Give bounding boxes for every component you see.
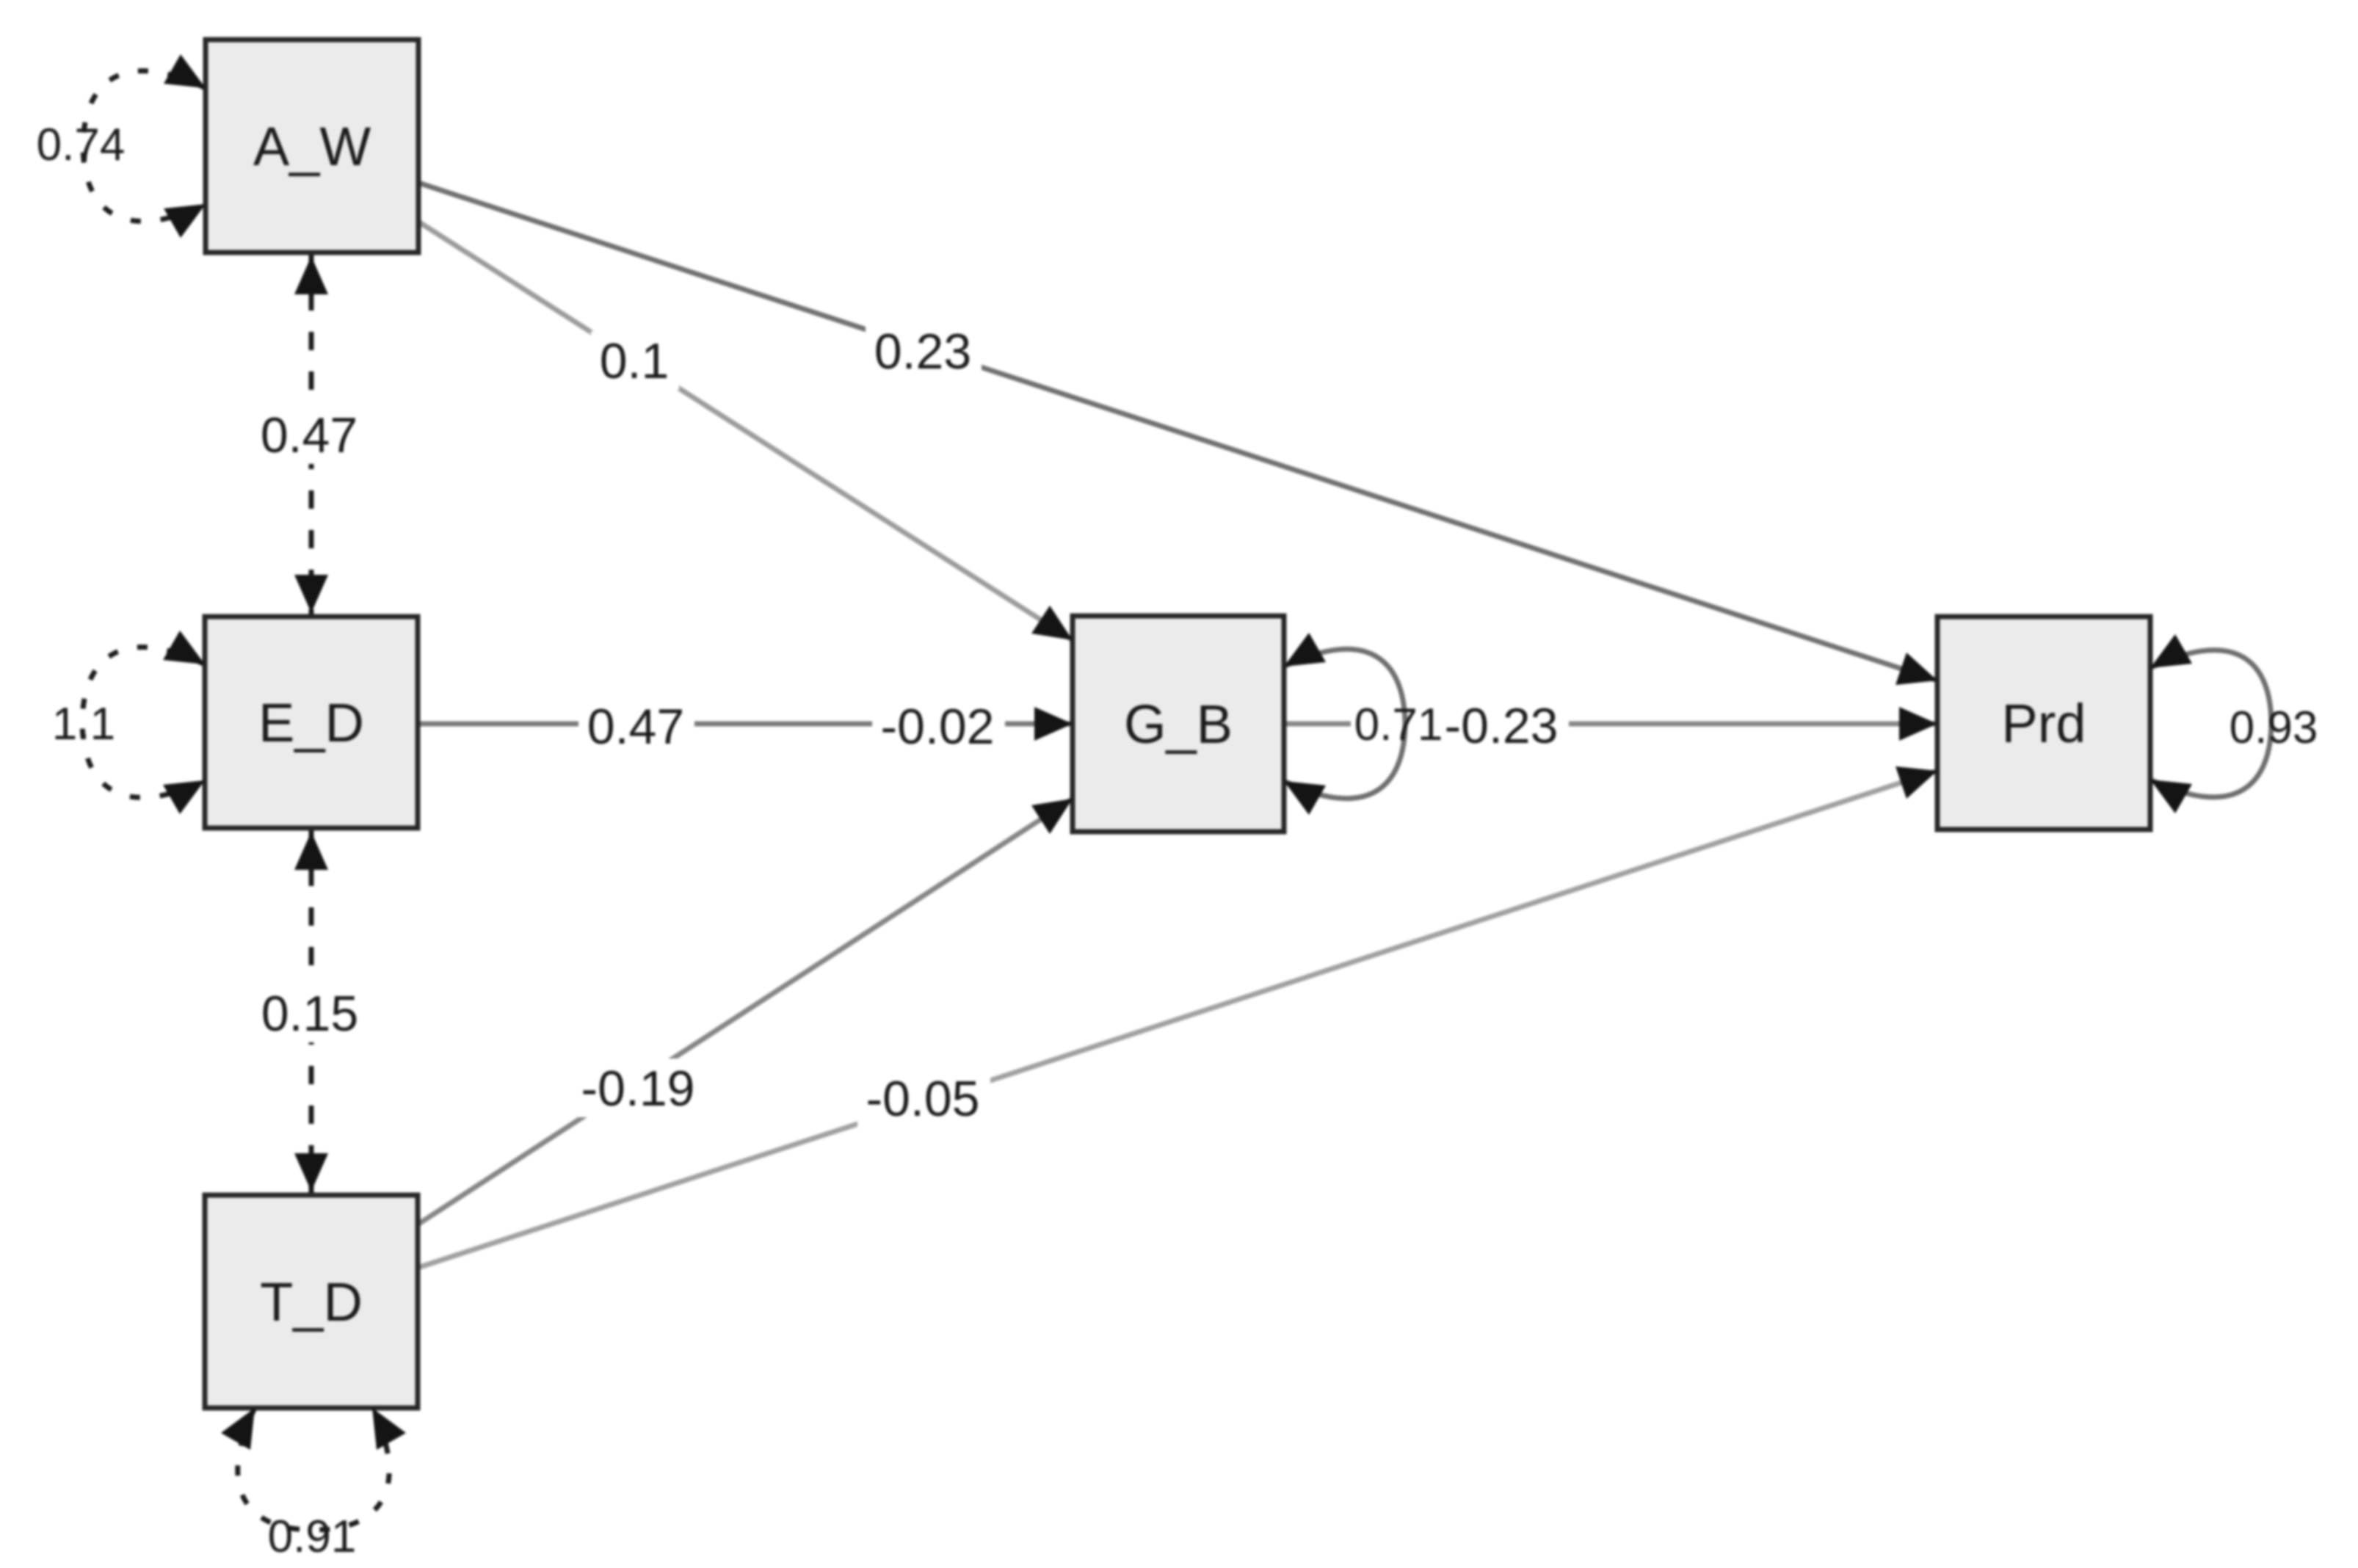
arrowheads variance Prd — [2150, 634, 2192, 668]
arrowhead T_D to Prd — [1896, 766, 1937, 799]
node A_W — [206, 40, 418, 253]
svg-text:-0.02: -0.02 — [881, 699, 995, 755]
node E_D — [205, 617, 418, 828]
svg-text:0.93: 0.93 — [2230, 703, 2318, 753]
svg-text:E_D: E_D — [258, 692, 364, 753]
arrowheads variance E_D — [163, 631, 205, 664]
svg-text:0.91: 0.91 — [268, 1511, 357, 1562]
path A_W to Prd (0.23) — [418, 183, 1937, 680]
label 0.15 on E_D-T_D covariance background — [253, 984, 369, 1042]
svg-text:0.47: 0.47 — [587, 699, 684, 755]
label -0.02 on E_D-Prd background — [872, 697, 1005, 755]
svg-text:-0.05: -0.05 — [866, 1071, 980, 1127]
label 0.47 on E_D-G_B background — [578, 697, 694, 755]
label -0.19 on T_D-G_B background — [573, 1059, 705, 1117]
label -0.23 on G_B-Prd background — [1436, 696, 1569, 755]
svg-text:A_W: A_W — [253, 116, 371, 177]
svg-text:0.1: 0.1 — [600, 333, 670, 389]
variance loop G_B (0.71) — [1284, 649, 1405, 798]
covariance A_W with E_D (0.47) dashed double arrow — [309, 253, 314, 617]
arrowhead G_B to Prd — [1899, 707, 1937, 741]
arrowhead A_W to Prd — [1896, 653, 1937, 685]
variance loop Prd (0.93) — [2150, 650, 2271, 797]
arrowhead T_D to G_B — [1031, 799, 1073, 834]
node G_B — [1073, 616, 1284, 832]
variance loop A_W (0.74) — [83, 71, 206, 222]
svg-text:0.23: 0.23 — [874, 324, 971, 380]
svg-text:-0.19: -0.19 — [581, 1061, 695, 1117]
svg-text:1.1: 1.1 — [52, 699, 115, 749]
arrowheads variance T_D — [221, 1408, 255, 1450]
svg-text:T_D: T_D — [260, 1271, 363, 1332]
arrowheads E_D with T_D — [294, 832, 328, 870]
svg-text:Prd: Prd — [2001, 693, 2086, 754]
node Prd — [1937, 617, 2150, 830]
svg-text:-0.23: -0.23 — [1445, 698, 1559, 754]
label 0.47 on A_W-E_D covariance background — [252, 405, 368, 464]
svg-text:0.74: 0.74 — [37, 120, 126, 170]
svg-text:G_B: G_B — [1124, 694, 1233, 755]
arrowheads variance G_B — [1284, 633, 1326, 667]
svg-text:0.15: 0.15 — [261, 986, 358, 1042]
label 0.1 on A_W-G_B background — [591, 331, 679, 390]
path G_B to Prd (-0.23) — [1284, 722, 1351, 727]
path A_W to G_B (0.1) — [418, 222, 1073, 640]
node T_D — [205, 1195, 418, 1408]
arrowheads variance A_W — [164, 54, 206, 88]
path T_D to G_B (-0.19) — [418, 799, 1073, 1224]
path T_D to Prd (-0.05) — [418, 771, 1937, 1268]
variance loop T_D (0.91) — [238, 1408, 389, 1530]
path E_D to G_B (0.47) and E_D to Prd (-0.02) — [418, 722, 1073, 727]
label -0.05 on T_D-Prd background — [857, 1069, 990, 1128]
variance loop E_D (1.1) — [82, 647, 205, 798]
svg-text:0.71: 0.71 — [1354, 700, 1443, 750]
arrowheads A_W with E_D — [294, 256, 328, 294]
svg-text:0.47: 0.47 — [261, 407, 358, 463]
arrowhead E_D to G_B — [1034, 707, 1073, 741]
arrowhead A_W to G_B — [1031, 606, 1073, 640]
label 0.23 on A_W-Prd background — [866, 322, 982, 380]
covariance E_D with T_D (0.15) dashed double arrow — [309, 828, 314, 1195]
